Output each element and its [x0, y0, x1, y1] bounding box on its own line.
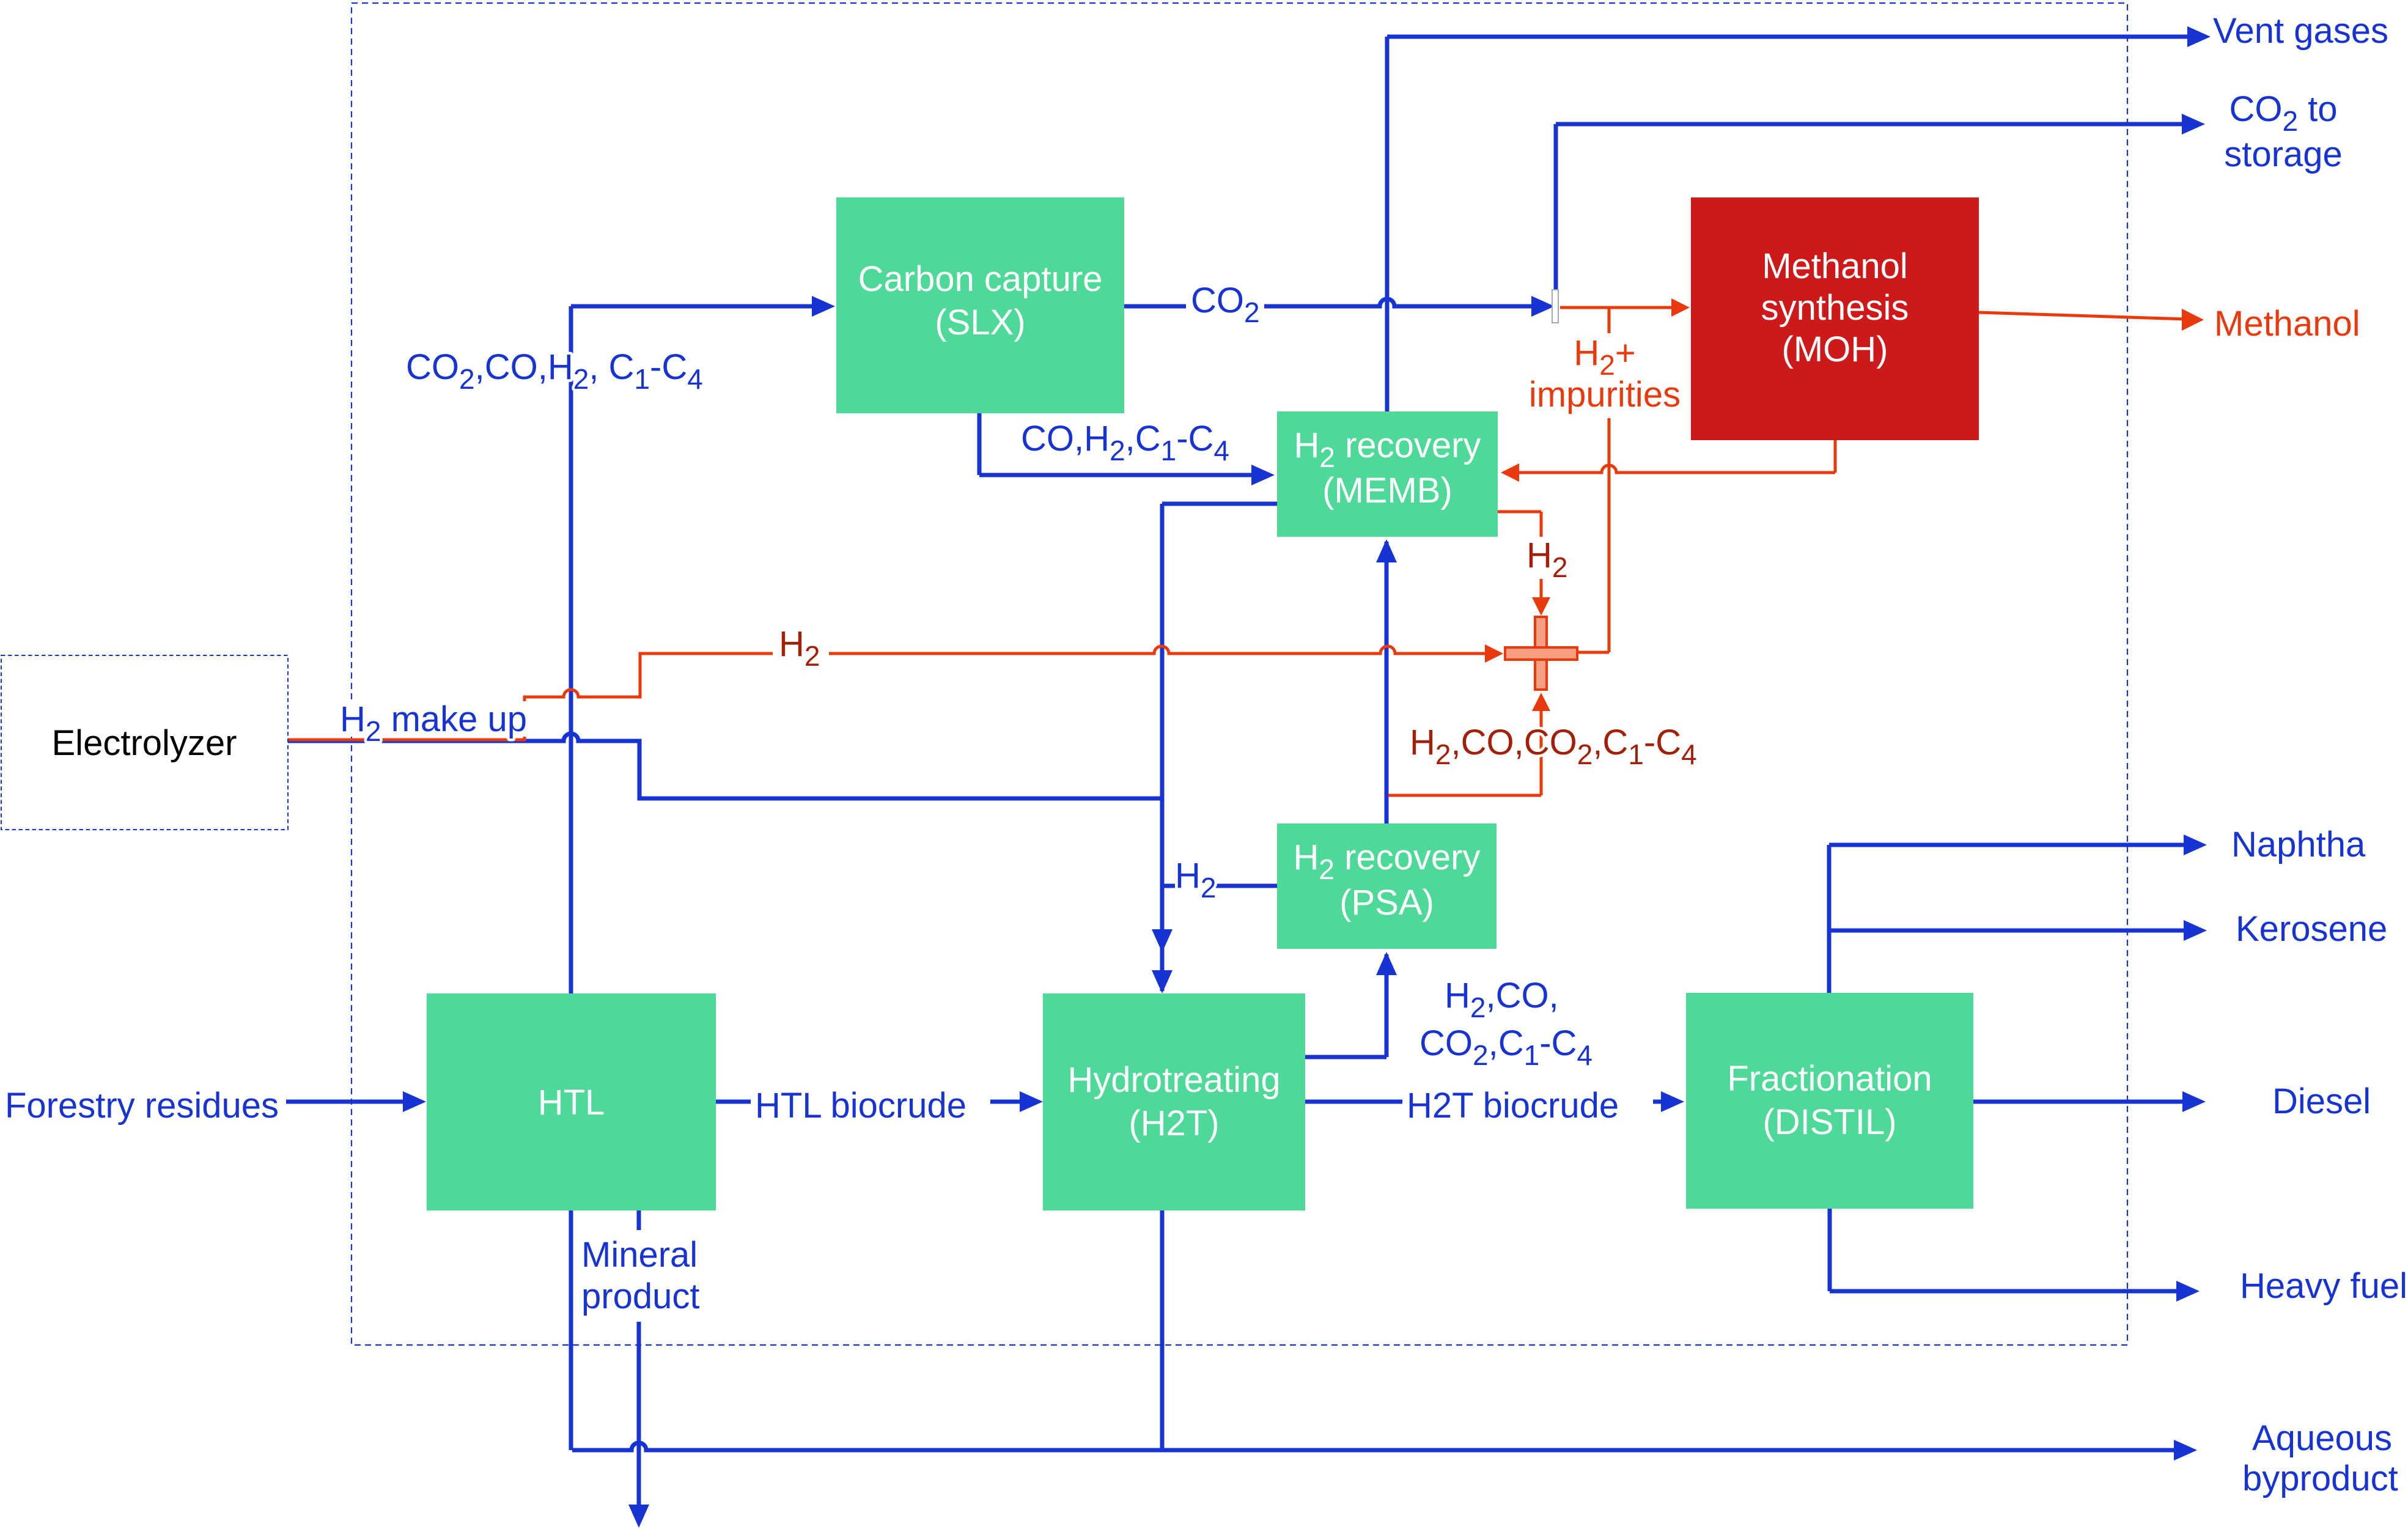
svg-text:Carbon capture: Carbon capture	[858, 259, 1103, 299]
wire recycle riser x=2521	[1540, 710, 1543, 795]
wire H2+impurities into MOH y=503	[1560, 306, 1673, 309]
arrowhead H2 into mixer top	[1532, 597, 1550, 616]
svg-text:(H2T): (H2T)	[1129, 1103, 1219, 1143]
svg-text:H2T biocrude: H2T biocrude	[1407, 1086, 1619, 1126]
arrowhead Aqueous byproduct	[2174, 1440, 2197, 1461]
arrowhead into HTL	[403, 1091, 426, 1112]
wire DISTIL top riser x=2992	[1827, 845, 1832, 993]
wire H2 make up blue path	[288, 734, 1162, 798]
arrowhead into PSA bottom	[1376, 952, 1397, 975]
process block Hydrotreating (H2T)	[1043, 993, 1305, 1210]
arrowhead Kerosene	[2184, 920, 2207, 941]
wire Kerosene y=1522	[1829, 929, 2186, 933]
svg-text:synthesis: synthesis	[1761, 288, 1909, 328]
wire SLX feed horizontal y=501	[571, 304, 819, 309]
wire H2 into PSA y=1449	[1215, 884, 1277, 888]
wire Heavy fuel y=2112	[1830, 1289, 2179, 1294]
svg-text:Kerosene: Kerosene	[2236, 909, 2387, 949]
wire mixer out riser x=2632 (upper stub)	[1608, 308, 1611, 333]
wire Methanol product	[1978, 312, 2186, 319]
svg-text:storage: storage	[2224, 134, 2342, 174]
wire H2T offgas riser x=2268	[1385, 954, 1389, 1057]
wire mixer out y=1067	[1577, 651, 1609, 654]
arrowhead into Hydrotreating top	[1152, 970, 1173, 993]
wire HTL offgas riser / HTL aqueous drop x=934	[569, 306, 573, 1450]
arrowhead Heavy fuel	[2176, 1281, 2200, 1302]
label CO2 on line	[1186, 282, 1264, 323]
wire CO,H2,C1-C4 into MEMB y=777	[979, 473, 1256, 477]
junction slot marker	[1552, 290, 1558, 323]
wire MEMB H2 out y=837	[1498, 510, 1541, 514]
arrowhead mid (header to H2T)	[1152, 929, 1173, 952]
arrowhead Mineral product out	[628, 1505, 649, 1528]
wire Naphtha y=1382	[1829, 843, 2186, 847]
process block H2 recovery (MEMB)	[1277, 411, 1498, 537]
wire mixer out riser x=2632 (lower)	[1608, 418, 1611, 652]
wire CO2-to-storage riser x=2545	[1554, 124, 1558, 290]
wire vent riser x=2269 (MEMB top to vent line)	[1385, 37, 1390, 411]
svg-text:(MEMB): (MEMB)	[1322, 471, 1453, 510]
arrowhead into H2 recovery MEMB	[1251, 465, 1275, 485]
svg-text:HTL: HTL	[538, 1083, 605, 1122]
svg-text:Electrolyzer: Electrolyzer	[52, 723, 237, 763]
system boundary dashed box	[352, 3, 2127, 1345]
arrowhead Diesel	[2182, 1091, 2206, 1112]
arrowhead into mixer bottom	[1532, 693, 1550, 711]
wire mineral product drop x=1045	[637, 1322, 641, 1505]
wire Forestry residues y=1802	[286, 1100, 405, 1104]
wire aqueous byproduct y=2372	[572, 1443, 2176, 1450]
svg-text:Heavy fuel: Heavy fuel	[2240, 1266, 2407, 1306]
svg-text:Hydrotreating: Hydrotreating	[1067, 1060, 1280, 1100]
wire H2T offgas y=1729	[1305, 1055, 1386, 1059]
wire HTL biocrude y=1802	[716, 1100, 1022, 1104]
label HTL biocrude	[751, 1087, 990, 1125]
svg-text:Forestry residues: Forestry residues	[5, 1086, 279, 1126]
wire H2 tick at PSA label	[1162, 884, 1175, 888]
svg-text:Diesel: Diesel	[2272, 1081, 2371, 1121]
svg-text:impurities: impurities	[1529, 375, 1681, 414]
wire makeup header vertical x=1901	[1160, 504, 1165, 991]
arrowhead Methanol	[2182, 309, 2204, 331]
svg-text:Fractionation: Fractionation	[1727, 1059, 1932, 1099]
svg-text:Vent gases: Vent gases	[2213, 11, 2388, 51]
svg-text:Naphtha: Naphtha	[2231, 825, 2366, 864]
mixer cross node	[1505, 617, 1577, 690]
arrowhead into Fractionation	[1661, 1091, 1684, 1112]
arrowhead Vent gases	[2187, 26, 2211, 47]
arrowhead recycle into MEMB right	[1501, 463, 1519, 482]
arrowhead Naphtha	[2184, 835, 2207, 855]
process block Fractionation (DISTIL)	[1686, 993, 1973, 1209]
wire MEMB H2 drop lower x=2521	[1540, 579, 1543, 600]
wire vent gases y=60	[1387, 35, 2190, 39]
label H2 make up	[335, 701, 532, 737]
wire recycle gas y=1301	[1388, 794, 1541, 797]
block Electrolyzer	[1, 655, 288, 830]
wire mineral product stub	[637, 1210, 641, 1230]
label H2T biocrude	[1402, 1087, 1653, 1125]
svg-text:(MOH): (MOH)	[1782, 330, 1888, 369]
arrowhead H2 into mixer left	[1485, 644, 1503, 663]
svg-text:HTL biocrude: HTL biocrude	[755, 1086, 967, 1126]
process block H2 recovery (PSA)	[1277, 823, 1497, 949]
arrowhead CO2 junction	[1531, 296, 1555, 317]
svg-text:(PSA): (PSA)	[1339, 883, 1434, 923]
arrowhead CO2 to storage	[2182, 114, 2205, 134]
process block Methanol synthesis (MOH)	[1691, 197, 1979, 440]
svg-text:product: product	[581, 1277, 699, 1316]
svg-text:(DISTIL): (DISTIL)	[1762, 1102, 1896, 1142]
wire DISTIL bottoms x=2993	[1828, 1209, 1832, 1291]
svg-text:(SLX): (SLX)	[935, 303, 1025, 342]
wire MOH recycle to MEMB y=773	[1519, 465, 1835, 473]
wire CO2 from SLX y=501	[1124, 299, 1539, 306]
arrowhead into MEMB bottom	[1376, 539, 1397, 562]
wire MOH bottoms drop x=3002	[1834, 440, 1837, 473]
svg-text:Mineral: Mineral	[581, 1235, 698, 1275]
svg-text:Aqueous: Aqueous	[2252, 1418, 2392, 1458]
arrowhead into Carbon capture SLX	[812, 296, 835, 317]
wire CO2 to storage y=203	[1556, 122, 2184, 127]
svg-text:byproduct: byproduct	[2242, 1459, 2398, 1498]
wire makeup H2 into MEMB y=824	[1162, 502, 1277, 506]
wire electrolyzer H2 make-up red path with long H2 line	[288, 646, 1487, 740]
wire MEMB H2 drop upper x=2521	[1540, 512, 1543, 537]
wire H2T biocrude y=1802	[1305, 1100, 1663, 1104]
arrowhead into Methanol synthesis	[1671, 298, 1690, 317]
process block HTL	[427, 993, 716, 1210]
wire Diesel y=1802	[1973, 1100, 2185, 1104]
wire H2T bottoms drop x=1901	[1160, 1210, 1165, 1450]
label H2 on long line	[773, 627, 829, 669]
process block Carbon capture (SLX)	[836, 197, 1124, 413]
svg-text:Methanol: Methanol	[2214, 304, 2360, 344]
wire SLX bottom drop x=1602	[978, 413, 982, 475]
svg-text:Methanol: Methanol	[1762, 246, 1908, 286]
wire PSA to MEMB x=2268	[1385, 542, 1389, 823]
arrowhead into Hydrotreating	[1020, 1091, 1043, 1112]
